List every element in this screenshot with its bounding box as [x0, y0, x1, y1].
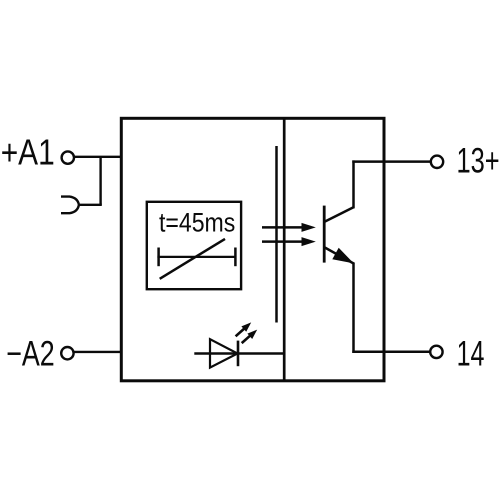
- svg-text:−A2: −A2: [6, 334, 55, 373]
- timer box T1: [147, 202, 241, 289]
- LED light arrow 2: [242, 330, 258, 344]
- phototransistor Q1 emitter arrowhead: [332, 248, 354, 264]
- timing symbol baseline: [157, 256, 236, 258]
- terminal circle A1: [62, 151, 74, 163]
- svg-text:+A1: +A1: [1, 133, 55, 173]
- module outline box: [121, 118, 384, 381]
- optocoupler arrow 2: [262, 237, 316, 246]
- socket (plug-in connection) symbol: [61, 197, 79, 214]
- svg-text:14: 14: [457, 333, 485, 373]
- wire branch down to socket: [99, 157, 101, 205]
- LED D1 cathode bar: [237, 341, 240, 367]
- phototransistor Q1 collector diagonal: [325, 207, 354, 221]
- phototransistor Q1 emitter diagonal: [325, 248, 355, 264]
- LED D1 triangle: [210, 339, 238, 367]
- wire collector up: [352, 160, 355, 208]
- wire emitter down: [352, 263, 355, 353]
- isolation barrier line: [275, 146, 278, 323]
- wire A1 to box: [75, 156, 121, 158]
- terminal circle A2: [61, 347, 73, 359]
- svg-text:13+: 13+: [457, 140, 500, 180]
- wire A2 to box: [74, 351, 121, 353]
- timing symbol right tick: [234, 248, 237, 267]
- timing symbol diagonal: [160, 239, 225, 279]
- terminal circle 14: [430, 346, 442, 358]
- divider input/output sections: [283, 118, 286, 381]
- phototransistor Q1 base bar: [323, 206, 326, 263]
- LED light arrow 1: [236, 322, 252, 336]
- terminal circle 13+: [431, 156, 443, 168]
- optocoupler arrow 1: [262, 223, 316, 232]
- LED D1 wire: [194, 352, 283, 354]
- wire socket to branch: [78, 204, 102, 206]
- wire bottom rail to 14: [352, 351, 430, 354]
- svg-text:t=45ms: t=45ms: [159, 208, 235, 238]
- timing symbol left tick: [157, 248, 160, 267]
- wire top rail to 13+: [352, 160, 430, 163]
